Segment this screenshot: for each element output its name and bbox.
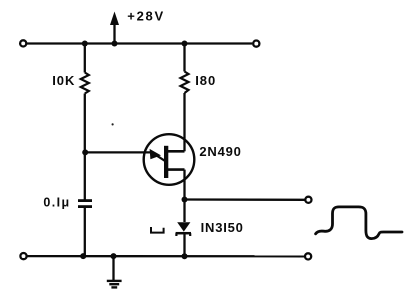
wire 180 to transistor B2 [183,93,185,151]
wire bottom rail [27,255,304,257]
supply arrow +28V [110,12,119,44]
wire top of 180 [183,44,185,72]
terminal top-left [20,40,26,46]
node junction supply arrow [112,41,118,47]
speck artifact [112,123,114,125]
node junction B1/output [182,197,188,203]
svg-text:2N490: 2N490 [199,144,241,159]
wire output upper [185,198,305,201]
wire top of 10K [84,44,86,73]
node junction bottom of capacitor branch [80,253,86,259]
svg-text:+28V: +28V [127,9,165,24]
wire transistor B1 down [183,170,185,200]
wire junction to diode [183,200,185,223]
svg-text:I80: I80 [195,73,216,88]
terminal top-right [253,41,259,47]
terminal bottom-left [20,253,26,259]
svg-text:0.Iμ: 0.Iμ [43,196,70,210]
wire capacitor to bottom rail [84,207,86,257]
terminal output upper [305,197,311,203]
resistor 10K [81,73,89,94]
output waveform [316,207,402,239]
ground [107,256,122,287]
resistor 180 [181,72,189,94]
trigger pulse symbol [151,227,164,233]
emitter arrow into base bar [150,149,165,161]
node junction top of 10K [82,41,88,47]
node emitter junction [82,149,88,155]
wire 10K to capacitor [84,94,86,200]
capacitor 0.1u [78,201,92,207]
wire emitter from left branch [85,151,153,153]
node junction bottom of diode branch [182,253,188,259]
wire top rail [27,42,252,44]
diode CR1 1N3150 [176,222,191,236]
node junction top of 180 [182,41,188,47]
node junction ground [111,253,117,259]
transistor U1 2N490 unijunction [144,134,195,185]
wire diode to bottom rail [183,234,185,256]
terminal bottom-right [305,253,311,259]
svg-text:I0K: I0K [52,73,75,88]
svg-text:IN3I50: IN3I50 [201,220,244,235]
